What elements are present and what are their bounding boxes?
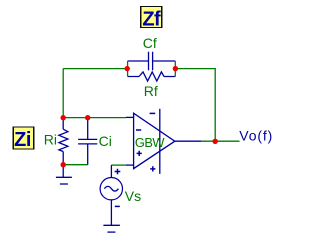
wire inverting node horizontal xyxy=(63,117,126,119)
svg-text:Vo(f): Vo(f) xyxy=(239,128,273,144)
svg-text:Zi: Zi xyxy=(14,129,31,151)
svg-text:Ci: Ci xyxy=(99,133,112,149)
resistor Rf xyxy=(128,72,176,81)
node Zf left junction xyxy=(125,66,130,71)
Vs minus mark xyxy=(115,205,120,207)
op-amp inverting input minus mark xyxy=(136,129,141,131)
node Ci top junction xyxy=(85,115,90,120)
ground (under Vs) xyxy=(103,225,120,232)
op-amp bottom supply plus mark xyxy=(150,166,155,171)
svg-text:Cf: Cf xyxy=(143,35,157,51)
wire Zf right bar xyxy=(174,61,176,77)
wire Zf left bar xyxy=(127,61,129,77)
svg-text:Rf: Rf xyxy=(144,83,158,99)
wire top feedback horizontal xyxy=(63,68,126,70)
wire output to Vo(f) xyxy=(201,140,240,142)
svg-text:Vs: Vs xyxy=(125,188,141,204)
node output junction xyxy=(213,139,218,144)
op-amp top supply minus mark xyxy=(150,112,156,114)
wire Vs top to op-amp noninverting xyxy=(111,164,126,166)
label Zf xyxy=(141,6,162,30)
wire left feedback vertical xyxy=(62,69,64,118)
node Ri bottom junction xyxy=(61,162,66,167)
wire Ri bottom to Ci bottom xyxy=(63,164,87,166)
capacitor Ci xyxy=(78,118,97,165)
Vs plus mark xyxy=(115,169,121,175)
op-amp U1 GBW xyxy=(126,109,201,174)
svg-text:GBW: GBW xyxy=(135,135,165,150)
svg-text:Ri: Ri xyxy=(44,132,57,148)
voltage source Vs xyxy=(100,165,122,225)
node Ri top junction xyxy=(61,115,66,120)
wire Zf right to output vertical xyxy=(177,69,216,142)
node Zf right junction xyxy=(173,66,178,71)
capacitor Cf xyxy=(128,52,176,71)
svg-text:Zf: Zf xyxy=(142,8,161,30)
label Zi xyxy=(13,127,33,151)
ground (under Ri) xyxy=(56,165,72,184)
op-amp noninverting input plus mark xyxy=(137,151,142,156)
resistor Ri xyxy=(59,118,68,165)
